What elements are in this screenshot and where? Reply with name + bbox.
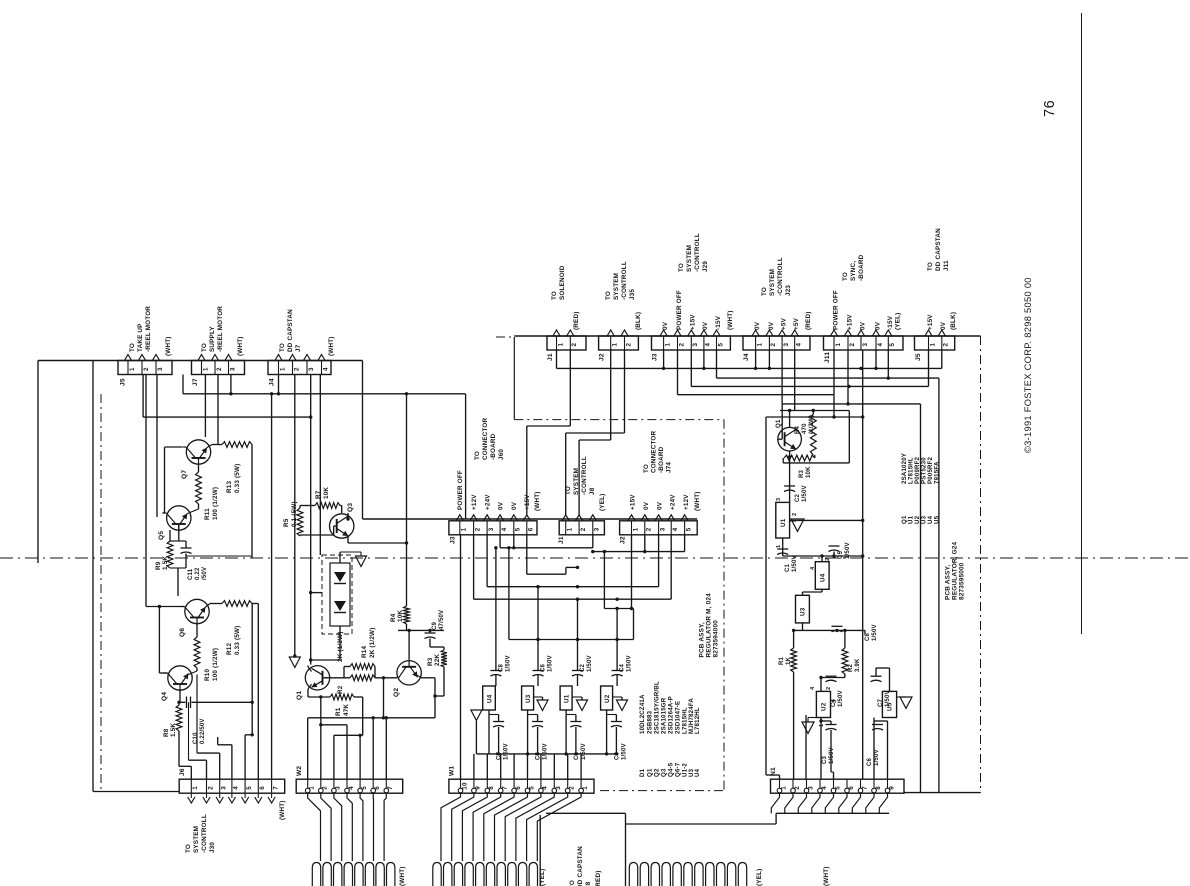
svg-text:POWER OFF: POWER OFF (833, 290, 840, 330)
wire left rail (93, 361, 179, 792)
label TO SYNC -BOARD (842, 254, 865, 281)
svg-text:R5: R5 (283, 518, 290, 527)
svg-text:4: 4 (672, 527, 679, 531)
svg-text:-15V: -15V (887, 315, 894, 330)
svg-text:TO: TO (551, 291, 558, 300)
wire R13 right drop (186, 445, 252, 559)
pin arrows J5 (124, 355, 159, 361)
wire Q2 base (407, 629, 410, 660)
label J11 top (824, 352, 831, 363)
svg-text:+12V: +12V (471, 494, 478, 510)
wire input U4 (495, 548, 497, 686)
svg-text:TO: TO (761, 287, 768, 296)
svg-text:J3: J3 (450, 536, 457, 544)
wire R7 to Q3 collector (340, 506, 342, 514)
resistor R7 (300, 503, 340, 509)
wire N1 bus to boundary (904, 792, 981, 794)
wire drop to R4 node (406, 394, 408, 606)
svg-text:1.5K: 1.5K (162, 556, 169, 570)
ground U1 right (790, 519, 804, 531)
copyright note FOSTEX (1023, 277, 1033, 453)
capacitor C9 (425, 629, 436, 647)
svg-text:+24V: +24V (485, 494, 492, 510)
svg-text:Q6: Q6 (179, 628, 186, 637)
wire N1 collector bus (626, 813, 890, 824)
label C6 1/50V right (867, 749, 880, 766)
svg-text:2SC1815Y/GR/BL: 2SC1815Y/GR/BL (654, 681, 661, 734)
wire drop to power-off line (465, 394, 467, 519)
svg-text:4: 4 (877, 343, 884, 347)
transistor Q2 (397, 660, 421, 685)
pin contacts W2 (305, 788, 388, 793)
capacitor C1 (566, 715, 581, 756)
label J4 top (743, 353, 750, 361)
wire J4 pin2 drop (294, 375, 296, 657)
svg-text:U4: U4 (487, 694, 494, 703)
wire R12 right drop (252, 604, 258, 735)
label R1 47K (335, 704, 350, 716)
svg-text:-15V: -15V (715, 315, 722, 330)
labels J4 top pins (754, 317, 800, 330)
svg-text:2: 2 (826, 687, 832, 690)
svg-text:Q7: Q7 (181, 470, 188, 479)
resistor R3 (441, 650, 447, 667)
transistor Q5 (163, 506, 191, 531)
svg-text:SYSTEM: SYSTEM (613, 273, 620, 300)
svg-text:-CONTROLL: -CONTROLL (694, 233, 701, 272)
svg-text:C10: C10 (193, 732, 199, 744)
svg-text:J29: J29 (702, 261, 709, 272)
label TO TAKE UP -REEL MOTOR (129, 306, 152, 352)
label Q7 (181, 470, 188, 479)
wire D1 bottom to Q1 (309, 634, 340, 662)
label TO SUPPLY -REEL MOTOR (201, 306, 224, 352)
svg-text:J6: J6 (179, 768, 186, 776)
svg-text:3: 3 (308, 367, 315, 371)
wire D1 top (340, 552, 361, 555)
labels J3 top pins (662, 290, 722, 330)
connector J1 top (solenoid) (547, 336, 586, 350)
svg-text:R13: R13 (226, 481, 233, 493)
wire J4 pin3 drop to Q1 (310, 375, 312, 665)
wire U1R output (782, 538, 784, 556)
svg-text:TAKE UP: TAKE UP (137, 323, 144, 352)
wire U2R output to N1 (819, 718, 831, 780)
svg-text:-BOARD: -BOARD (490, 433, 497, 460)
svg-text:J30: J30 (209, 842, 216, 853)
svg-text:(YEL): (YEL) (599, 494, 606, 511)
wire Q7 emitter link (207, 445, 212, 448)
connector J2 (connector board J74) (620, 521, 698, 535)
label R12 0.33 (5W) (226, 626, 241, 655)
label (BLK) J5 top (950, 312, 957, 330)
svg-text:C2: C2 (580, 663, 586, 672)
label C1 1/50V (574, 743, 587, 760)
svg-text:6: 6 (259, 786, 266, 790)
ground U5 right (897, 697, 912, 708)
svg-text:U3: U3 (525, 694, 532, 703)
label C1 1/50V right (785, 555, 798, 572)
svg-text:3: 3 (832, 700, 838, 703)
label J1 center (558, 536, 565, 544)
svg-text:10K: 10K (397, 610, 404, 622)
label J2 top (599, 353, 606, 361)
label TO CONNECTOR -BOARD J74 (643, 430, 673, 473)
label J3 center (450, 536, 457, 544)
svg-text:C7: C7 (497, 751, 503, 760)
page margin vertical line (1081, 13, 1083, 634)
svg-text:0.33 (5W): 0.33 (5W) (234, 464, 241, 493)
svg-text:2K (1/2W): 2K (1/2W) (337, 632, 344, 663)
svg-text:5: 5 (717, 343, 724, 347)
wire Q2 emitter (418, 675, 437, 718)
label R3 22K (427, 654, 441, 666)
svg-text:4: 4 (233, 786, 240, 790)
right parts values (901, 453, 941, 484)
diode D1 elements (334, 572, 346, 613)
svg-text:(WHT): (WHT) (823, 866, 830, 886)
label (WHT) J7 (237, 336, 244, 356)
page number 76 (1042, 100, 1058, 117)
svg-text:(BLK): (BLK) (950, 312, 957, 330)
svg-text:J2: J2 (599, 353, 606, 361)
connector J1 (system controll J8) (559, 521, 604, 535)
wire staircase a (527, 350, 571, 515)
svg-text:(WHT): (WHT) (279, 800, 286, 820)
ground U2 (613, 697, 628, 711)
wire staircase b (566, 350, 625, 515)
pin arrows J6 (188, 794, 276, 803)
svg-text:CONNECTOR: CONNECTOR (651, 430, 658, 473)
svg-text:1: 1 (632, 527, 639, 531)
transistor Q4 (164, 666, 192, 691)
wire Q1R emitter to U1R (788, 451, 791, 502)
svg-text:R1: R1 (779, 656, 785, 665)
label C11 0.22 /50V (188, 567, 208, 580)
svg-text:0.33 (5W): 0.33 (5W) (234, 626, 241, 655)
transistor Q6 (181, 599, 209, 624)
wire N1 pin1 feed (766, 417, 780, 779)
svg-text:1/50V: 1/50V (505, 655, 511, 672)
svg-text:(WHT): (WHT) (399, 866, 406, 886)
pin contacts N1 (777, 788, 890, 793)
svg-text:Q5: Q5 (158, 531, 165, 540)
capacitor C1 right (777, 549, 788, 555)
svg-text:22K: 22K (434, 654, 441, 666)
svg-text:3: 3 (862, 343, 869, 347)
svg-text:1/50V: 1/50V (838, 690, 844, 707)
wire regulator input rail (509, 548, 634, 641)
diode D1 dashed box (322, 555, 352, 634)
wire hE (474, 535, 672, 601)
wire Q6 emitter link (206, 604, 211, 608)
svg-text:PCB ASSY,: PCB ASSY, (945, 565, 952, 600)
svg-text:5: 5 (685, 527, 692, 531)
svg-text:0V: 0V (860, 321, 867, 330)
svg-text:+24V: +24V (670, 494, 677, 510)
svg-text:TO: TO (569, 880, 576, 886)
svg-text:8273595000: 8273595000 (959, 562, 966, 600)
center board boundary dash-dot (496, 337, 724, 791)
svg-text:-BOARD: -BOARD (658, 446, 665, 473)
label C2 1/50V right (795, 485, 808, 502)
svg-text:J11: J11 (824, 352, 831, 363)
svg-text:C1: C1 (785, 563, 791, 572)
label C8 1/50V right (865, 624, 878, 641)
svg-text:4: 4 (322, 367, 329, 371)
pin arrows J3 center (456, 515, 530, 521)
wire output U4 (488, 710, 490, 754)
svg-text:TO: TO (129, 343, 136, 352)
connector J11 top (sync board) (824, 336, 904, 350)
wire bus A (reel motor supply) (38, 360, 363, 362)
label (WHT) J4 (328, 336, 335, 356)
svg-text:©3-1991 FOSTEX CORP. 8298 505: ©3-1991 FOSTEX CORP. 8298 5050 00 (1023, 277, 1033, 453)
wire staircase c (579, 350, 611, 515)
svg-text:J7: J7 (295, 344, 302, 352)
connector J3 top (system controll J29) (652, 336, 731, 350)
wire R1R to N1 pin2 (793, 672, 795, 779)
svg-text:R12: R12 (226, 643, 233, 655)
svg-text:0.1 (5W): 0.1 (5W) (291, 501, 298, 527)
svg-text:SYSTEM: SYSTEM (193, 826, 200, 853)
svg-text:1/50V: 1/50V (587, 655, 593, 672)
svg-text:Q2: Q2 (393, 688, 400, 697)
label (YEL) J11 top (895, 313, 902, 330)
wire hF (604, 535, 633, 610)
wire +5V net (782, 350, 920, 793)
resistor R1 (308, 694, 363, 735)
svg-text:1/50V: 1/50V (621, 743, 627, 760)
svg-text:C8: C8 (498, 663, 504, 672)
label (WHT) J6 (279, 800, 286, 820)
connector comb3 (YEL cable) (629, 863, 746, 886)
wires N1 fanout hooks (771, 793, 887, 813)
svg-text:(YEL): (YEL) (756, 869, 763, 886)
label R8 1.5K (163, 723, 177, 737)
capacitor C3 (607, 715, 622, 756)
svg-text:4: 4 (501, 527, 508, 531)
wire -15V net (717, 350, 939, 793)
svg-text:3: 3 (488, 527, 495, 531)
svg-text:TO: TO (605, 291, 612, 300)
wire bus A left drop (37, 361, 39, 564)
wire hC step (527, 535, 579, 574)
capacitor C6 right (872, 725, 883, 731)
svg-text:0V: 0V (657, 501, 664, 510)
label TO DD CAPSTAN J7 (279, 309, 302, 352)
wire J6 pin3 feed (197, 753, 220, 779)
pin arrows J4 top (752, 330, 798, 336)
svg-text:1: 1 (835, 343, 842, 347)
transistor Q1 right (778, 427, 802, 451)
wire J5 pin3 drop (156, 375, 158, 518)
svg-text:TO: TO (474, 451, 481, 460)
svg-text:+15V: +15V (847, 314, 854, 330)
svg-text:0V: 0V (754, 321, 761, 330)
capacitor C3 right (826, 721, 837, 779)
wire C9 node (398, 630, 444, 650)
svg-text:2: 2 (571, 343, 578, 347)
svg-text:(WHT): (WHT) (727, 310, 734, 330)
wire R3 node line (783, 411, 849, 463)
svg-text:J2: J2 (620, 536, 627, 544)
connector comb (WHT cable) (312, 863, 395, 886)
pin arrows J3 top (660, 330, 720, 336)
svg-text:C8: C8 (865, 632, 871, 641)
capacitor C8 right (832, 626, 843, 632)
svg-text:2: 2 (825, 558, 831, 561)
wire J6 pin5 feed (245, 733, 254, 779)
parts list designators (639, 762, 701, 777)
svg-text:R2: R2 (848, 663, 854, 672)
svg-text:Q1: Q1 (775, 419, 782, 428)
wire R3 bottom (435, 667, 444, 696)
svg-text:0.22/50V: 0.22/50V (200, 718, 206, 744)
resistor R8 (176, 701, 182, 731)
connector W1 (449, 779, 594, 793)
wire Q1 emitter (308, 684, 312, 697)
label TO CONNECTOR -BOARD J60 (474, 417, 505, 460)
label R9 1.5K (155, 556, 169, 570)
label (WHT) comb1 (399, 866, 406, 886)
svg-text:47/50V: 47/50V (439, 610, 445, 630)
svg-text:W1: W1 (449, 766, 456, 776)
label J4 (269, 378, 276, 386)
svg-text:Q6-7: Q6-7 (675, 762, 682, 777)
svg-text:TO: TO (842, 272, 849, 281)
svg-text:10K: 10K (806, 466, 812, 478)
capacitor C5 right (829, 546, 840, 556)
svg-text:2K (1/2W): 2K (1/2W) (369, 628, 376, 659)
wire J6 pin4 feed (218, 737, 232, 779)
connector comb (YEL cable) (433, 863, 538, 886)
label N1 (770, 767, 777, 776)
regulator U1 (560, 686, 572, 710)
label J3 top (652, 353, 659, 361)
wire J7 pin2 drop (217, 375, 219, 445)
wire J7 pin1 drop (204, 375, 206, 438)
svg-text:J7: J7 (192, 378, 199, 386)
right board boundary dash-dot (980, 336, 982, 793)
svg-text:2: 2 (207, 786, 214, 790)
label TO SYSTEM -CONTROLL J23 (761, 257, 792, 296)
svg-text:3: 3 (783, 343, 790, 347)
svg-text:DD CAPSTAN: DD CAPSTAN (577, 846, 584, 886)
label (RED) J1 top (573, 312, 580, 331)
wire J4 pin4 drop (319, 375, 321, 556)
svg-text:3: 3 (594, 527, 601, 531)
wire U3R output node (792, 623, 865, 634)
svg-text:(WHT): (WHT) (534, 491, 541, 511)
wire capstan channel (540, 813, 625, 886)
label Q6 (179, 628, 186, 637)
svg-text:1: 1 (192, 786, 199, 790)
svg-text:1: 1 (567, 527, 574, 531)
label R4 10K (390, 610, 404, 622)
label C8 1/50V (498, 655, 511, 672)
svg-text:1/50V: 1/50V (504, 743, 510, 760)
svg-text:1/50V: 1/50V (872, 624, 878, 641)
svg-text:2: 2 (678, 343, 685, 347)
wire W2 pin feeds (308, 718, 387, 779)
svg-text:0V: 0V (940, 321, 947, 330)
svg-text:TO: TO (927, 262, 934, 271)
wire output U1 (564, 710, 567, 756)
svg-text:Q1: Q1 (296, 691, 303, 700)
labels J2 center pins (630, 494, 691, 510)
wire net h410 (780, 350, 849, 412)
svg-text:D1: D1 (639, 768, 646, 777)
svg-text:+12V: +12V (683, 494, 690, 510)
svg-text:0V: 0V (662, 321, 669, 330)
svg-text:7915FA: 7915FA (933, 461, 940, 484)
svg-text:(YEL): (YEL) (895, 313, 902, 330)
svg-text:+15V: +15V (927, 314, 934, 330)
label Q4 (161, 692, 168, 701)
svg-text:(1/2W): (1/2W) (809, 415, 815, 434)
svg-text:(WHT): (WHT) (165, 336, 172, 356)
svg-text:POWER OFF: POWER OFF (676, 290, 683, 330)
resistor R12 (210, 601, 252, 607)
svg-text:J8: J8 (589, 487, 596, 495)
wire hA (494, 535, 593, 550)
label (WHT) J2C (694, 491, 701, 511)
svg-text:2SD1047-E: 2SD1047-E (675, 701, 682, 734)
svg-text:1/50V: 1/50V (802, 485, 808, 502)
svg-text:0.22: 0.22 (195, 567, 201, 580)
svg-text:1: 1 (557, 343, 564, 347)
svg-text:J23: J23 (785, 285, 792, 296)
svg-text:C6: C6 (867, 757, 873, 766)
svg-text:R14: R14 (361, 646, 368, 658)
parts list values (639, 681, 701, 734)
resistor R2 (324, 675, 397, 681)
connector N1 (771, 779, 905, 793)
wire input U2 (616, 609, 618, 687)
svg-text:2: 2 (580, 527, 587, 531)
svg-text:J5: J5 (915, 353, 922, 361)
label (WHT) J3C (534, 491, 541, 511)
label C9 47/50V (432, 610, 445, 630)
label (BLK) J2 top (635, 312, 642, 330)
svg-text:R10: R10 (204, 669, 211, 681)
svg-text:TO: TO (185, 844, 192, 853)
capacitor C2 (572, 671, 583, 677)
svg-text:100 (1/2W): 100 (1/2W) (212, 487, 219, 520)
label TO SYSTEM -CONTROLL J35 (605, 261, 636, 300)
svg-text:TO: TO (678, 263, 685, 272)
label TO DD CAPSTAN J11 (927, 228, 950, 271)
svg-text:3: 3 (229, 367, 236, 371)
svg-text:U5: U5 (933, 515, 940, 524)
svg-text:R9: R9 (155, 561, 162, 570)
label C4 1/50V right (831, 690, 844, 707)
svg-text:PCB ASSY,: PCB ASSY, (699, 622, 706, 657)
pin arrows J1 center (562, 515, 596, 521)
svg-text:3: 3 (776, 498, 782, 501)
wire J6 pin2 feed (189, 702, 207, 779)
svg-text:-REEL MOTOR: -REEL MOTOR (217, 306, 224, 352)
svg-text:1: 1 (612, 343, 619, 347)
svg-text:C4: C4 (620, 663, 626, 672)
label R14 2K (1/2W) (361, 628, 376, 659)
svg-text:1/50V: 1/50V (874, 749, 880, 766)
wire hD (487, 535, 658, 588)
svg-text:SYSTEM: SYSTEM (686, 245, 693, 272)
transistor Q1 (305, 666, 331, 690)
wire J3C pin1 to W1 pin10 (460, 535, 462, 779)
